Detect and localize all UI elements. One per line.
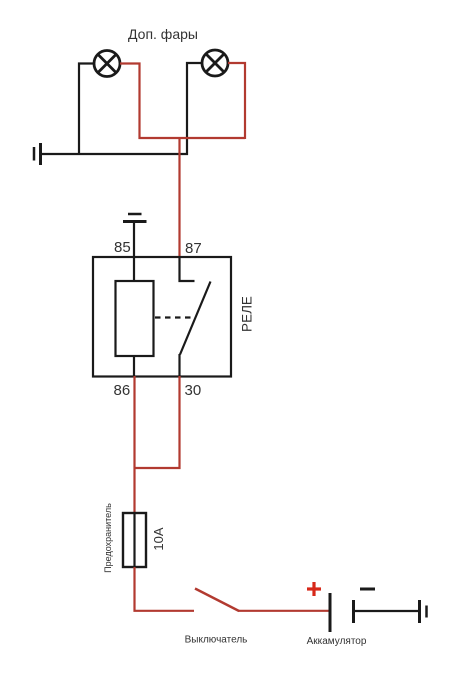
- relay armature (switch blade): [180, 282, 211, 355]
- svg-text:30: 30: [185, 382, 202, 399]
- battery positive plate: [329, 593, 332, 632]
- battery negative plate: [352, 600, 355, 623]
- svg-text:85: 85: [114, 239, 131, 256]
- wire pin85 to ground G2: [133, 222, 135, 258]
- minus sign: [360, 588, 375, 591]
- wire fuse to switch (red): [135, 567, 195, 611]
- relay box U1: [93, 257, 231, 377]
- fuse F1: [123, 513, 146, 567]
- ground G1: [34, 143, 41, 165]
- switch SW1 blade (red): [195, 589, 239, 612]
- svg-text:87: 87: [185, 240, 202, 257]
- relay coil: [116, 281, 154, 356]
- relay coil pin 86 lead: [133, 356, 135, 376]
- svg-text:Выключатель: Выключатель: [185, 635, 248, 646]
- wire pin 30 joining pin-86 wire (red): [135, 376, 180, 468]
- svg-text:10А: 10А: [151, 527, 166, 550]
- plus sign: [307, 582, 321, 596]
- wire pin 86 to fuse (red): [133, 376, 135, 513]
- wire lamp1 to red bus (red): [120, 64, 140, 140]
- wire lamp2 to red bus (red): [228, 63, 245, 139]
- ground G3: [420, 600, 427, 623]
- ground G2 above pin 85: [123, 214, 147, 222]
- relay pin 30 lead: [178, 354, 180, 376]
- svg-text:Предохранитель: Предохранитель: [103, 503, 113, 573]
- actuator dashed link: [155, 316, 195, 318]
- wire switch to battery + (red): [238, 610, 329, 612]
- svg-text:РЕЛЕ: РЕЛЕ: [240, 296, 255, 332]
- svg-text:86: 86: [114, 382, 131, 399]
- relay fixed contact 87: [180, 257, 195, 281]
- svg-text:Доп. фары: Доп. фары: [128, 26, 198, 42]
- lamp L1: [94, 51, 120, 77]
- red bus wire: [139, 137, 246, 139]
- wire lamp1 to ground bus (black): [79, 64, 94, 156]
- relay coil pin 85 lead: [133, 257, 135, 281]
- lamp L2: [202, 50, 228, 76]
- wire battery negative to ground: [354, 610, 420, 612]
- wire red bus to relay pin 87: [178, 138, 180, 258]
- svg-text:Аккамулятор: Аккамулятор: [307, 636, 367, 647]
- wire lamp2 to ground bus (black): [187, 63, 202, 155]
- ground bus wire: [41, 153, 188, 155]
